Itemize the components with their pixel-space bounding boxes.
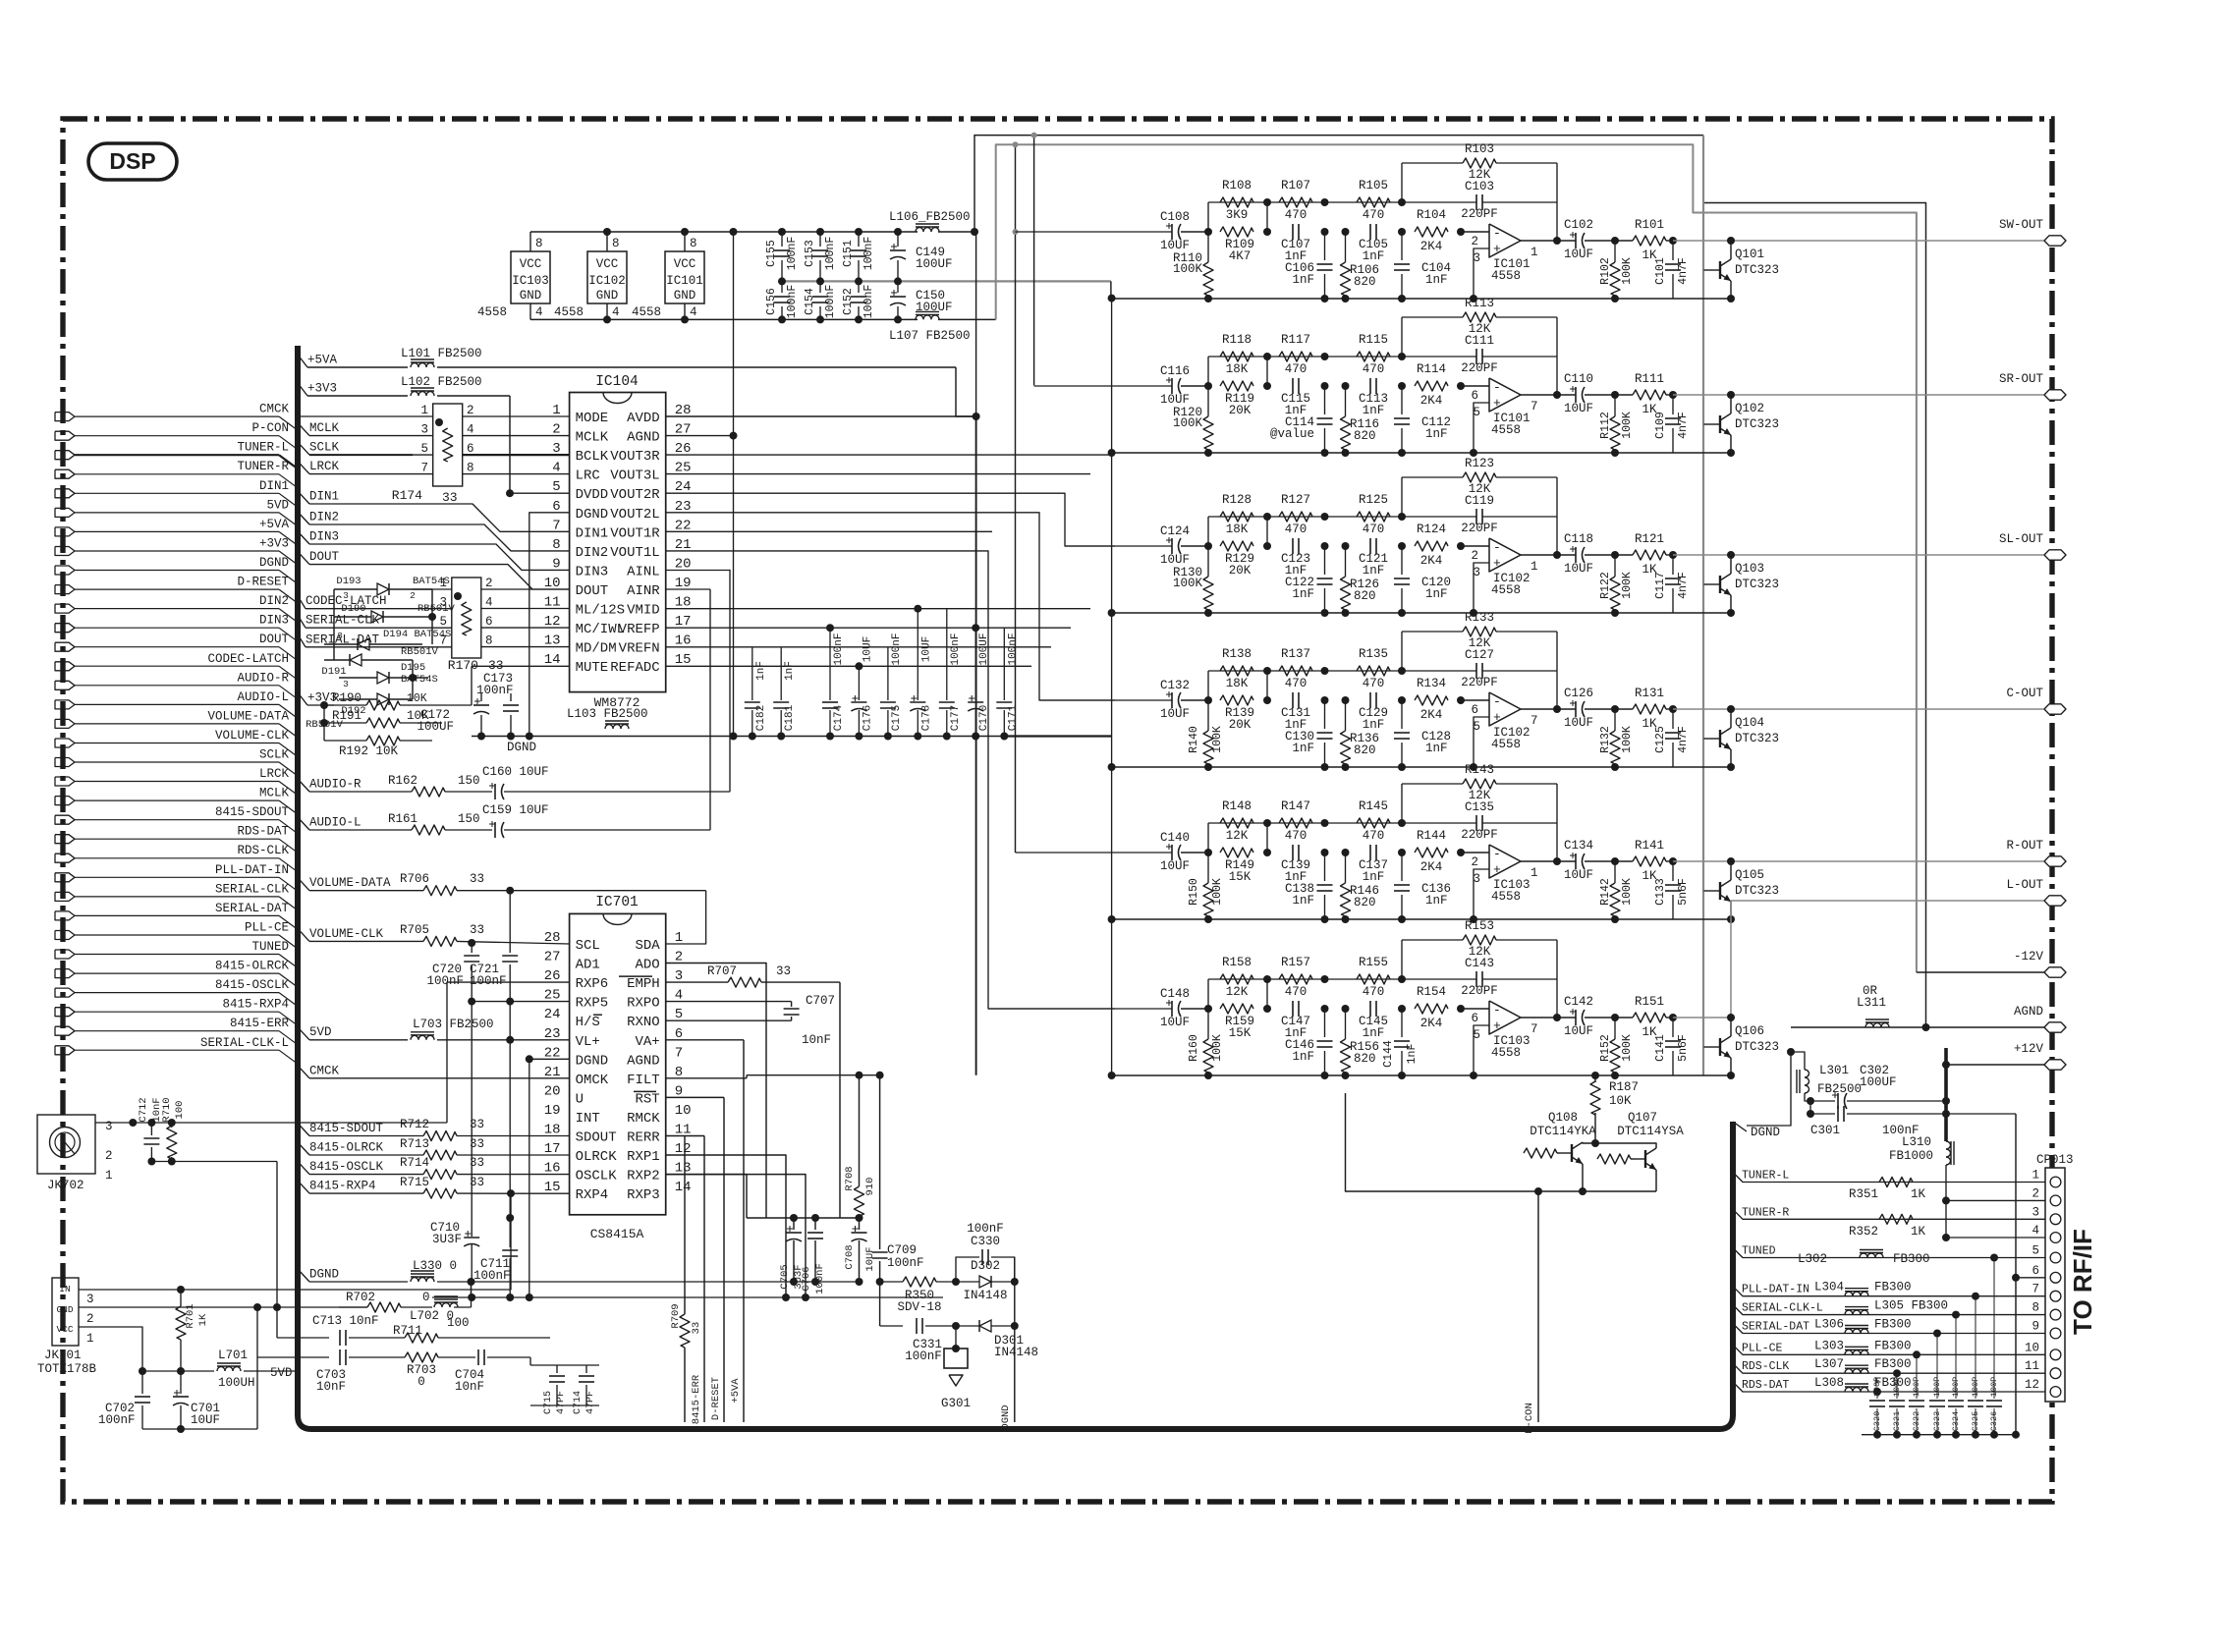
capacitor C114 @value (1324, 386, 1326, 414)
svg-text:10UF: 10UF (1564, 402, 1593, 415)
svg-text:R108: R108 (1222, 179, 1252, 193)
svg-text:CMCK: CMCK (259, 403, 290, 416)
ferrite bead L310 FB1000 (1946, 1141, 1951, 1165)
svg-text:3K9: 3K9 (1226, 208, 1249, 222)
svg-text:+: + (1493, 556, 1501, 571)
resistor R149 15K (1220, 848, 1253, 857)
capacitor C116 10UF (1171, 378, 1173, 394)
svg-text:5n6F: 5n6F (1677, 878, 1690, 906)
svg-text:5: 5 (2031, 1244, 2039, 1258)
svg-text:C175: C175 (891, 705, 903, 731)
svg-text:R351: R351 (1849, 1187, 1878, 1201)
svg-text:C119: C119 (1465, 494, 1494, 508)
svg-text:FB300: FB300 (1874, 1318, 1912, 1332)
resistor R116 820 (1345, 386, 1347, 416)
capacitor C151 100nF (858, 232, 860, 247)
svg-text:VCC: VCC (520, 257, 542, 271)
svg-text:8: 8 (485, 634, 493, 648)
page border frame dash-dot (63, 119, 2052, 1502)
diode D301 IN4148 (956, 1325, 979, 1327)
svg-text:2K4: 2K4 (1420, 860, 1443, 874)
thick signal bus line (298, 346, 1733, 1429)
svg-text:Q106: Q106 (1735, 1024, 1764, 1038)
svg-text:INT: INT (576, 1111, 600, 1127)
svg-text:1K: 1K (1911, 1225, 1926, 1239)
capacitor C108 10UF (1171, 224, 1173, 240)
capacitor C321 100P (1896, 1373, 1898, 1399)
svg-text:R710: R710 (161, 1097, 173, 1122)
svg-text:1nF: 1nF (1425, 273, 1448, 287)
resistor R132 100K (1614, 709, 1616, 731)
svg-text:L102 FB2500: L102 FB2500 (401, 375, 482, 389)
wire JK701 VCC (79, 1327, 142, 1383)
svg-text:R174: R174 (392, 488, 422, 503)
svg-text:7: 7 (2031, 1283, 2039, 1296)
wire +3V3 pullup exit (298, 692, 307, 705)
IC U IC701 CS8415A body (570, 913, 666, 1214)
svg-text:33: 33 (470, 1118, 484, 1131)
wire DGND exit L330 (298, 1269, 309, 1282)
resistor R108 3K9 (1220, 197, 1253, 207)
wire output net SL-OUT (1673, 554, 2044, 556)
capacitor C110 10UF (1575, 387, 1577, 403)
svg-text:3: 3 (105, 1120, 113, 1133)
svg-text:H/S: H/S (576, 1015, 600, 1030)
resistor R161 150 (412, 825, 445, 835)
transistor Q103 DTC323 (1703, 583, 1708, 585)
capacitor C139 1nF (1292, 845, 1294, 860)
svg-text:R706: R706 (400, 872, 429, 886)
svg-text:C174: C174 (833, 704, 845, 731)
svg-text:2: 2 (485, 577, 493, 590)
svg-text:150: 150 (458, 812, 480, 826)
svg-text:33: 33 (776, 964, 791, 978)
svg-text:R152: R152 (1599, 1034, 1612, 1062)
wire PLL-DAT-IN to CP013 (1733, 1287, 2045, 1296)
svg-text:10UF: 10UF (920, 636, 932, 662)
input connector 5VD (55, 508, 75, 517)
svg-text:3: 3 (343, 679, 349, 689)
svg-text:33: 33 (470, 872, 484, 886)
svg-text:DIN1: DIN1 (259, 479, 289, 493)
svg-text:R117: R117 (1281, 333, 1310, 347)
svg-text:2: 2 (410, 590, 416, 601)
resistor R158 12K (1220, 974, 1253, 984)
svg-text:DIN1: DIN1 (576, 525, 609, 541)
svg-text:IC101: IC101 (666, 274, 703, 288)
wire op-amp output SL-OUT (1521, 554, 1576, 556)
svg-text:Q108: Q108 (1548, 1111, 1578, 1125)
svg-text:18K: 18K (1226, 362, 1249, 376)
wire VOLUME-CLK exit (298, 928, 309, 941)
svg-text:1nF: 1nF (1292, 1050, 1314, 1064)
wire block2 feed riser (1033, 136, 1035, 386)
svg-text:100nF: 100nF (905, 1349, 942, 1363)
svg-text:470: 470 (1363, 523, 1385, 536)
svg-text:2K4: 2K4 (1420, 708, 1443, 722)
svg-text:REFADC: REFADC (610, 660, 659, 676)
pin 8 CP013 (2050, 1309, 2061, 1320)
svg-text:8415-OLRCK: 8415-OLRCK (309, 1141, 384, 1155)
svg-text:TUNER-R: TUNER-R (237, 460, 289, 473)
wire bottom rail SR-OUT (1112, 452, 1731, 454)
capacitor C102 10UF (1575, 233, 1577, 248)
svg-text:100nF: 100nF (833, 633, 845, 665)
svg-text:6: 6 (1471, 703, 1478, 717)
svg-text:Q104: Q104 (1735, 716, 1764, 730)
svg-text:2: 2 (467, 404, 474, 417)
svg-text:C182: C182 (755, 705, 767, 731)
svg-text:RXP5: RXP5 (576, 996, 609, 1012)
svg-text:1K: 1K (1911, 1187, 1926, 1201)
svg-text:SR-OUT: SR-OUT (1999, 372, 2044, 386)
resistor R114 2K4 (1415, 381, 1448, 391)
svg-text:470: 470 (1285, 208, 1308, 222)
resistor R125 470 (1357, 512, 1390, 522)
capacitor C177 100nF (946, 609, 948, 700)
svg-text:R161: R161 (388, 812, 417, 826)
wire C713 line (277, 1337, 329, 1339)
input connector CMCK (55, 413, 75, 421)
svg-text:C111: C111 (1465, 334, 1494, 348)
svg-text:P-CON: P-CON (251, 421, 289, 435)
capacitor C111 220PF feedback (1475, 349, 1477, 364)
svg-text:8415-ERR: 8415-ERR (691, 1374, 702, 1424)
svg-text:1nF: 1nF (1363, 404, 1385, 417)
wire SDA riser (666, 891, 706, 944)
capacitor C127 220PF feedback (1475, 663, 1477, 679)
svg-text:100nF: 100nF (786, 237, 799, 271)
svg-text:AUDIO-L: AUDIO-L (309, 816, 362, 830)
svg-text:TUNER-R: TUNER-R (1742, 1206, 1789, 1219)
op-amp IC103 4558 (1489, 1001, 1521, 1034)
capacitor C714 47PF (585, 1365, 587, 1373)
wire mute drive vertical (1702, 136, 1704, 1075)
capacitor C144 1nF (1401, 1009, 1403, 1037)
capacitor C128 1nF (1401, 700, 1403, 729)
svg-text:R187: R187 (1609, 1080, 1639, 1094)
wire DGND to L301 (1747, 1052, 1791, 1126)
svg-text:R113: R113 (1465, 297, 1494, 310)
svg-text:RB501V: RB501V (401, 646, 439, 658)
resistor R110 100K (1207, 232, 1209, 262)
svg-text:VOUT2L: VOUT2L (610, 507, 659, 523)
capacitor C101 4n7F (1672, 241, 1674, 260)
svg-text:4558: 4558 (1491, 738, 1521, 751)
svg-text:-: - (1493, 694, 1501, 709)
ferrite bead L302 FB300 (1860, 1253, 1883, 1257)
resistor R120 100K (1207, 386, 1209, 416)
svg-text:100K: 100K (1621, 572, 1634, 599)
svg-text:TUNED: TUNED (1742, 1245, 1776, 1258)
svg-text:MCLK: MCLK (576, 430, 609, 446)
svg-text:C713 10nF: C713 10nF (312, 1314, 379, 1328)
resistor R714 33 (423, 1170, 457, 1180)
connector JK702 coax jack (37, 1115, 95, 1174)
svg-text:100K: 100K (1621, 878, 1634, 906)
input connector 8415-RXP4 (55, 1008, 75, 1017)
svg-text:Q105: Q105 (1735, 868, 1764, 882)
svg-text:DIN3: DIN3 (259, 614, 289, 628)
output terminal SR-OUT (2044, 390, 2066, 400)
wire DIN2 to IC104 (298, 512, 309, 524)
pin 7 CP013 (2050, 1291, 2061, 1301)
svg-text:3: 3 (2031, 1205, 2039, 1219)
capacitor C109 4n7F (1672, 395, 1674, 414)
resistor R112 100K (1614, 395, 1616, 416)
output terminal L-OUT (2044, 896, 2066, 906)
svg-text:RXNO: RXNO (627, 1015, 660, 1030)
svg-text:FB300: FB300 (1893, 1252, 1930, 1266)
resistor R159 15K (1220, 1004, 1253, 1014)
svg-text:6: 6 (2031, 1264, 2039, 1278)
svg-text:C320: C320 (1872, 1411, 1882, 1431)
svg-text:C117: C117 (1654, 572, 1667, 599)
svg-text:RXP4: RXP4 (576, 1187, 609, 1203)
svg-text:470: 470 (1285, 362, 1308, 376)
resistor R111 1K (1633, 390, 1666, 400)
wire VOUT2R riser to block3 (666, 493, 1115, 546)
svg-text:R131: R131 (1635, 687, 1664, 700)
input connector 8415-OSCLK (55, 988, 75, 997)
svg-text:OLRCK: OLRCK (576, 1149, 618, 1165)
capacitor C122 1nF (1324, 546, 1326, 575)
capacitor C124 10UF (1171, 538, 1173, 554)
capacitor C120 1nF (1401, 546, 1403, 575)
input connector 8415-SDOUT (55, 815, 75, 824)
resistor R130 100K (1207, 546, 1209, 577)
input connector D-RESET (55, 585, 75, 594)
svg-text:100K: 100K (1173, 262, 1203, 276)
svg-text:1nF: 1nF (1292, 273, 1314, 287)
svg-text:-: - (1493, 226, 1501, 241)
svg-text:R191: R191 (332, 709, 362, 723)
svg-text:EMPH: EMPH (627, 976, 660, 992)
svg-text:7: 7 (675, 1045, 683, 1061)
svg-text:100UF: 100UF (417, 720, 454, 734)
svg-text:R112: R112 (1599, 412, 1612, 439)
svg-text:RXP6: RXP6 (576, 976, 609, 992)
capacitor C715 47PF (556, 1365, 558, 1373)
svg-text:R705: R705 (400, 923, 429, 937)
svg-text:R158: R158 (1222, 956, 1252, 969)
svg-text:4558: 4558 (477, 305, 507, 319)
svg-text:47PF: 47PF (556, 1391, 567, 1414)
svg-text:100P: 100P (1872, 1377, 1882, 1397)
resistor R131 1K (1633, 704, 1666, 714)
wire FILT node line (747, 1074, 880, 1076)
resistor R107 470 (1279, 197, 1312, 207)
svg-text:4: 4 (485, 596, 493, 610)
junction bottom rail (1204, 1072, 1212, 1079)
svg-text:C323: C323 (1932, 1411, 1942, 1431)
capacitor C115 1nF (1292, 378, 1294, 394)
svg-text:AUDIO-R: AUDIO-R (237, 671, 289, 685)
svg-text:470: 470 (1363, 985, 1385, 999)
capacitor C140 10UF (1171, 845, 1173, 860)
svg-text:33: 33 (470, 923, 484, 937)
resistor R105 470 (1357, 197, 1390, 207)
transistor Q106 DTC323 (1703, 1046, 1708, 1048)
resistor R151 1K (1633, 1013, 1666, 1022)
svg-text:DTC323: DTC323 (1735, 417, 1779, 431)
wire -12V top route B (996, 144, 1917, 972)
svg-text:D194 BAT54S: D194 BAT54S (383, 629, 451, 640)
capacitor C133 5n6F (1672, 861, 1674, 881)
svg-text:L106_FB2500: L106_FB2500 (889, 210, 971, 224)
svg-text:100P: 100P (1989, 1377, 1999, 1397)
wire SERIAL-DAT to CP013 (1733, 1324, 2045, 1334)
wire block6 to Q108 region (1346, 1093, 1463, 1191)
wire RXP5 line (472, 1001, 569, 1003)
svg-text:8: 8 (535, 237, 543, 250)
capacitor C150 100UF (897, 281, 899, 293)
wire 8415-OLRCK exit (298, 1142, 309, 1155)
svg-text:6: 6 (1471, 389, 1478, 403)
svg-text:R127: R127 (1281, 493, 1310, 507)
svg-text:L701: L701 (218, 1349, 248, 1362)
svg-text:27: 27 (544, 950, 561, 965)
svg-text:24: 24 (544, 1007, 561, 1022)
svg-text:DIN3: DIN3 (309, 530, 339, 544)
wire op-amp output SW-OUT (1521, 240, 1576, 242)
svg-text:10UF: 10UF (1160, 239, 1190, 252)
svg-text:100nF: 100nF (814, 1263, 826, 1294)
svg-text:GND: GND (56, 1304, 73, 1315)
resistor R190 10K (324, 704, 366, 706)
svg-text:R190: R190 (332, 691, 362, 705)
op-amp supply box IC102 (587, 251, 627, 303)
svg-text:R701: R701 (185, 1303, 196, 1328)
capacitor C153 100nF (819, 232, 821, 247)
svg-text:VOLUME-CLK: VOLUME-CLK (215, 729, 290, 743)
wire JK701 ground rail (142, 1428, 257, 1430)
svg-text:R104: R104 (1417, 208, 1446, 222)
svg-text:8415-SDOUT: 8415-SDOUT (215, 805, 290, 819)
svg-text:10UF: 10UF (1160, 393, 1190, 407)
output terminal +12V (1946, 1064, 2044, 1066)
wire C714 rails (530, 1364, 599, 1366)
ferrite bead L107 FB2500 (916, 315, 939, 320)
svg-text:7: 7 (1530, 400, 1538, 413)
wire AVDD riser (975, 232, 977, 416)
wire AGND top route A (974, 136, 1703, 232)
svg-text:5VD: 5VD (266, 498, 289, 512)
svg-text:100nF: 100nF (470, 974, 507, 988)
svg-text:DGND: DGND (576, 1053, 609, 1069)
svg-text:8: 8 (612, 237, 620, 250)
wire CMCK to OMCK (298, 1066, 309, 1078)
svg-text:L702 0: L702 0 (410, 1309, 454, 1323)
capacitor C711 100nF (502, 1249, 518, 1251)
capacitor C152 100nF (858, 281, 860, 293)
wire CP013 pin4 (1946, 1200, 2045, 1238)
wire input line R-OUT (1016, 852, 1173, 854)
svg-text:BAT54S: BAT54S (401, 674, 438, 686)
resistor R133 12K feedback (1401, 632, 1403, 671)
resistor R703 0 (405, 1352, 438, 1362)
pin 5 CP013 (2050, 1252, 2061, 1263)
resistor R117 470 (1279, 352, 1312, 361)
wire output net L-OUT (1673, 1017, 1731, 1019)
wire VOUT2L riser to block4 (666, 513, 1115, 700)
wire top path SL-OUT (1207, 517, 1209, 546)
svg-text:-: - (1493, 540, 1501, 555)
resistor network R174 33 (433, 404, 463, 486)
resistor R140 100K (1207, 700, 1209, 731)
svg-text:1K: 1K (197, 1313, 209, 1326)
transistor Q104 DTC323 (1703, 738, 1708, 740)
svg-text:100nF: 100nF (967, 1222, 1004, 1236)
resistor R106 820 (1345, 232, 1347, 262)
svg-text:2K4: 2K4 (1420, 554, 1443, 568)
svg-text:L306: L306 (1814, 1318, 1844, 1332)
svg-text:4558: 4558 (1491, 1046, 1521, 1060)
svg-text:1nF: 1nF (755, 661, 767, 681)
svg-text:TOTX178B: TOTX178B (37, 1362, 97, 1376)
svg-text:10UF: 10UF (1160, 1016, 1190, 1029)
pin 10 CP013 (2050, 1349, 2061, 1360)
connector CP013 body (2045, 1168, 2065, 1402)
svg-text:4: 4 (467, 423, 474, 437)
pin 4 CP013 (2050, 1233, 2061, 1243)
wire RDS-CLK to CP013 (1733, 1363, 2045, 1373)
svg-text:8415-OSCLK: 8415-OSCLK (215, 978, 290, 992)
capacitor C136 1nF (1401, 853, 1403, 881)
svg-text:R125: R125 (1359, 493, 1388, 507)
svg-text:2K4: 2K4 (1420, 240, 1443, 253)
svg-text:R162: R162 (388, 774, 417, 788)
svg-text:12: 12 (2025, 1378, 2039, 1392)
input connector 8415-ERR (55, 1026, 75, 1035)
svg-text:AD1: AD1 (576, 958, 600, 973)
svg-text:G301: G301 (941, 1397, 971, 1410)
capacitor C148 10UF (1171, 1001, 1173, 1017)
svg-text:220PF: 220PF (1461, 828, 1498, 842)
wire L301 bottom (1805, 1093, 1810, 1101)
svg-text:220PF: 220PF (1461, 984, 1498, 998)
svg-text:10: 10 (2025, 1341, 2039, 1354)
wire op-amp plus input (1474, 563, 1489, 613)
svg-text:100P: 100P (1892, 1377, 1902, 1397)
capacitor C113 1nF (1369, 378, 1371, 394)
svg-text:R352: R352 (1849, 1225, 1878, 1239)
svg-text:SERIAL-CLK-L: SERIAL-CLK-L (1742, 1302, 1823, 1315)
resistor R162 150 (412, 787, 445, 797)
svg-text:R160: R160 (1188, 1034, 1200, 1062)
wire D-RESET vertical (723, 1097, 725, 1422)
capacitor C323 100P (1936, 1334, 1938, 1400)
svg-text:10UF: 10UF (862, 636, 873, 662)
capacitor C123 1nF (1292, 538, 1294, 554)
svg-text:MCLK: MCLK (259, 787, 290, 800)
capacitor C145 1nF (1369, 1001, 1371, 1017)
svg-text:SDV-18: SDV-18 (897, 1300, 941, 1314)
svg-text:4558: 4558 (1491, 890, 1521, 904)
svg-text:R709: R709 (670, 1303, 682, 1328)
svg-text:R144: R144 (1417, 829, 1446, 843)
svg-text:C142: C142 (1564, 995, 1593, 1009)
svg-text:2: 2 (1471, 235, 1478, 248)
svg-text:10UF: 10UF (1160, 859, 1190, 873)
svg-text:LRCK: LRCK (309, 460, 340, 473)
svg-text:BCLK: BCLK (576, 449, 609, 465)
svg-text:DTC114YKA: DTC114YKA (1530, 1125, 1596, 1138)
svg-text:33: 33 (442, 490, 458, 505)
wire DIN3 to IC104 (298, 531, 309, 544)
inductor L701 100UH (217, 1367, 241, 1372)
svg-text:R138: R138 (1222, 647, 1252, 661)
